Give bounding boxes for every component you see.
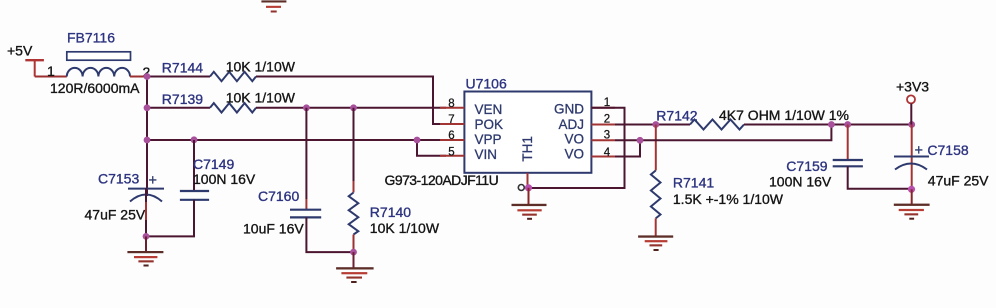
- svg-text:FB7116: FB7116: [67, 30, 115, 46]
- node output rail at C7159: [844, 121, 851, 128]
- svg-text:GND: GND: [554, 102, 584, 117]
- pin 6 stub: [440, 139, 464, 141]
- capacitor C7149: [180, 156, 256, 200]
- svg-text:5: 5: [448, 146, 454, 158]
- node VPP/VIN junction: [414, 137, 421, 144]
- svg-text:C7159: C7159: [786, 158, 827, 174]
- svg-text:120R/6000mA: 120R/6000mA: [50, 80, 140, 96]
- power terminal +3V3: [896, 79, 929, 125]
- wire R7142 to output rail: [744, 124, 912, 126]
- wire C7160 drop from rail2: [305, 108, 307, 199]
- wire rail3 (VPP): [147, 139, 446, 141]
- svg-text:7: 7: [448, 114, 454, 126]
- wire rail1 node to R7144: [147, 76, 210, 78]
- resistor R7144: [162, 59, 296, 82]
- node output rail at riser: [828, 121, 835, 128]
- svg-text:47uF 25V: 47uF 25V: [928, 173, 989, 189]
- node rail2 at C7160: [303, 104, 310, 111]
- pin 3 stub: [591, 139, 615, 141]
- wire C7149 bottom to C7153 bottom: [146, 200, 194, 237]
- node FB output: [144, 73, 151, 80]
- svg-text:C7153: C7153: [98, 171, 139, 187]
- node VO pins3/4: [637, 137, 644, 144]
- svg-text:VEN: VEN: [475, 102, 503, 117]
- wire R7140 drop from rail2: [353, 108, 355, 181]
- pin 8 stub: [440, 107, 464, 109]
- svg-text:R7144: R7144: [162, 60, 203, 76]
- ground below TH1: [512, 188, 547, 220]
- svg-text:6: 6: [448, 130, 454, 142]
- wire C7158 bottom: [911, 165, 913, 189]
- wire R7139 to U7106 pin 8: [256, 107, 446, 109]
- svg-text:C7149: C7149: [193, 156, 234, 172]
- svg-text:C7158: C7158: [927, 142, 968, 158]
- wire R7144 to U7106 pin 7: [256, 77, 446, 125]
- wire ADJ pin2 to node: [615, 124, 690, 126]
- node ADJ junction: [652, 121, 659, 128]
- wire R7140 bottom to ground node: [353, 235, 355, 253]
- svg-text:VPP: VPP: [475, 132, 502, 147]
- capacitor C7159: [769, 158, 863, 190]
- svg-text:2: 2: [604, 113, 610, 125]
- svg-text:8: 8: [448, 98, 454, 110]
- svg-text:R7142: R7142: [656, 108, 697, 124]
- wire +5V to FB7116 pin 1: [35, 76, 67, 78]
- capacitor C7158: [894, 142, 989, 189]
- svg-text:R7140: R7140: [370, 204, 411, 220]
- pin 2 stub: [591, 124, 615, 126]
- ground below C7153: [127, 236, 163, 266]
- ground below C7160/R7140: [336, 252, 374, 283]
- wire rail2 node to R7139: [147, 107, 210, 109]
- svg-text:VIN: VIN: [475, 147, 498, 162]
- svg-text:ADJ: ADJ: [558, 117, 584, 132]
- capacitor C7160: [243, 188, 321, 237]
- ground below R7141: [638, 235, 673, 251]
- svg-text:+: +: [149, 173, 157, 189]
- pin 4 stub: [591, 156, 615, 158]
- wire rail3 junction to U7106 pin 5: [417, 140, 446, 156]
- svg-text:4: 4: [604, 147, 611, 159]
- wire R7141 bottom stub: [655, 218, 657, 236]
- node C7158 bottom: [908, 186, 915, 193]
- svg-text:10K 1/10W: 10K 1/10W: [226, 90, 296, 106]
- svg-text:3: 3: [604, 129, 610, 141]
- node TH1/GND junction: [525, 184, 532, 191]
- svg-text:+5V: +5V: [7, 43, 33, 59]
- wire C7159 bottom to C7158 bottom: [848, 166, 912, 189]
- node C7153/C7149 bottom: [143, 233, 150, 240]
- wire C7159 drop: [847, 125, 849, 160]
- node rail3 at C7149: [191, 136, 198, 143]
- capacitor C7153: [85, 171, 165, 223]
- node rail3 at x147: [144, 137, 151, 144]
- resistor R7142: [656, 107, 849, 130]
- wire FB7116 pin 2 to node: [130, 76, 147, 78]
- wire VO pins 3,4 tie: [615, 140, 640, 156]
- wire vertical from FB node down to C7153: [146, 77, 148, 197]
- pin 7 stub: [440, 123, 464, 125]
- svg-text:10K 1/10W: 10K 1/10W: [226, 59, 296, 75]
- node output rail at C7158: [908, 121, 915, 128]
- svg-text:R7141: R7141: [673, 175, 714, 191]
- wire TH1 pad to ground: [527, 173, 529, 188]
- svg-text:U7106: U7106: [466, 76, 507, 92]
- wire C7160 bottom to ground node: [306, 217, 353, 252]
- resistor R7139: [162, 90, 296, 113]
- svg-text:C7160: C7160: [258, 188, 299, 204]
- pin 5 stub: [440, 155, 464, 157]
- svg-text:+3V3: +3V3: [896, 79, 929, 95]
- wire C7153 bottom: [145, 188, 147, 236]
- resistor R7141: [651, 171, 784, 219]
- svg-text:10K 1/10W: 10K 1/10W: [370, 220, 440, 236]
- svg-text:1: 1: [47, 63, 55, 79]
- svg-text:10uF 16V: 10uF 16V: [243, 221, 304, 237]
- svg-text:100N 16V: 100N 16V: [769, 174, 832, 190]
- svg-text:47uF 25V: 47uF 25V: [85, 207, 146, 223]
- svg-text:POK: POK: [475, 117, 504, 132]
- ground (top, partially cut off): [261, 0, 286, 12]
- pin circle at TH1 net: [518, 185, 524, 191]
- svg-text:G973-120ADJF11U: G973-120ADJF11U: [385, 172, 499, 188]
- resistor R7140: [349, 193, 440, 237]
- svg-text:R7139: R7139: [162, 91, 203, 107]
- ground below C7158: [894, 189, 930, 219]
- op-amp / regulator U7106: [440, 76, 615, 173]
- wire C7158 drop from rail: [911, 125, 913, 166]
- svg-text:VO: VO: [564, 147, 584, 162]
- node C7160/R7140 ground: [350, 249, 357, 256]
- svg-text:1.5K +-1% 1/10W: 1.5K +-1% 1/10W: [673, 191, 784, 207]
- svg-text:TH1: TH1: [520, 136, 535, 162]
- power terminal +5V: [7, 43, 44, 77]
- wire R7141 top stub: [655, 125, 657, 171]
- pin 1 stub: [591, 107, 615, 109]
- svg-text:100N 16V: 100N 16V: [193, 171, 256, 187]
- ferrite bead FB7116: [47, 30, 151, 97]
- wire C7149 drop from rail3: [193, 140, 195, 190]
- node rail2 at x147: [144, 104, 151, 111]
- wire VO to output rail riser: [615, 125, 831, 141]
- svg-text:4K7 OHM 1/10W 1%: 4K7 OHM 1/10W 1%: [719, 107, 849, 123]
- wire GND pin1 to TH1: [529, 108, 625, 188]
- node rail2 at R7140: [350, 104, 357, 111]
- svg-text:VO: VO: [564, 132, 584, 147]
